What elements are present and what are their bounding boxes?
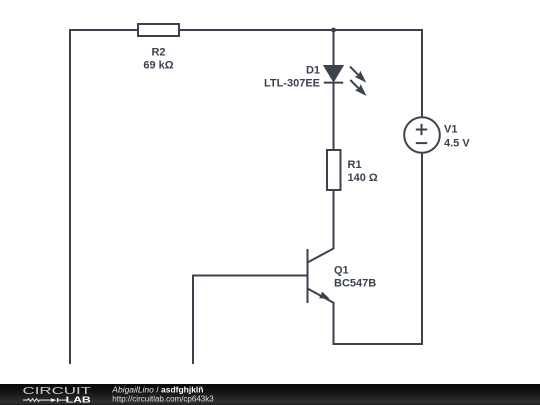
svg-text:D1: D1 [306,64,320,76]
svg-text:R2: R2 [151,47,165,59]
svg-text:http://circuitlab.com/cp643k3: http://circuitlab.com/cp643k3 [112,395,214,404]
wire W1 top-left horizontal segment [70,29,138,31]
wire W5 vertical from LED cathode to R1 [333,83,335,150]
CircuitLab logo diode cathode bar [57,398,59,402]
wire W2 top horizontal from R2 to top-right corner [179,29,422,31]
junction node dot at LED branch [331,28,336,33]
footer bar [0,384,540,405]
resistor R2 [138,24,179,36]
wire W10 bottom horizontal to V1 [333,343,424,345]
transistor Q1 symbol (NPN) [308,249,334,304]
wire W12 right vertical from V1 minus to bottom corner [421,153,423,345]
CircuitLab logo resistor zigzag [23,399,51,402]
CircuitLab logo diode triangle [51,398,57,402]
svg-text:AbigailLino / asdfghjklñ: AbigailLino / asdfghjklñ [111,385,203,395]
wire W6 vertical from R1 to Q1 collector [333,190,335,249]
wire W4 vertical from junction to LED anode [333,30,335,66]
svg-text:BC547B: BC547B [334,278,376,290]
CircuitLab logo wire to LAB [58,399,66,401]
svg-text:LTL-307EE: LTL-307EE [264,77,320,89]
voltage source V1 (circle with plus and minus) [404,117,440,153]
wire W8 base drop vertical (dangling) [192,275,194,365]
svg-text:69 kΩ: 69 kΩ [143,60,173,72]
svg-text:Q1: Q1 [334,264,349,276]
wire W9 emitter vertical [333,302,335,344]
svg-text:4.5 V: 4.5 V [444,138,470,150]
wire W11 right vertical from top corner to V1 plus [421,29,423,117]
svg-text:V1: V1 [444,124,457,136]
resistor R1 [327,150,341,190]
LED D1 symbol (triangle, cathode bar, emission arrows) [324,66,367,97]
svg-text:LAB: LAB [66,394,91,404]
wire W7 base horizontal [193,275,308,277]
svg-text:140 Ω: 140 Ω [348,172,378,184]
svg-text:R1: R1 [348,159,362,171]
wire W3 left vertical (dangling) [69,29,71,364]
